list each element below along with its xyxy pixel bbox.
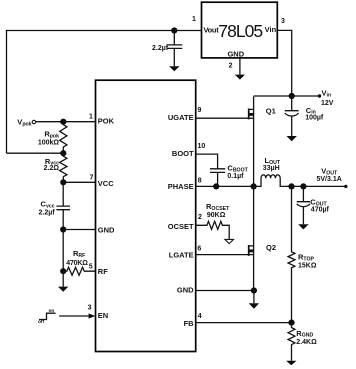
wire: LGATE pin 6 to Q2 gate: [196, 245, 249, 254]
svg-text:470KΩ: 470KΩ: [66, 260, 88, 267]
ground under RGND: [286, 361, 296, 365]
node Vout terminal: [317, 167, 348, 189]
svg-text:Vin: Vin: [322, 88, 332, 98]
svg-text:1: 1: [192, 16, 196, 23]
svg-text:LGATE: LGATE: [169, 250, 194, 259]
wire: GND pin right: [196, 290, 254, 292]
junction: POK / Rpok: [60, 119, 66, 125]
junction: Q2 source / GND: [251, 287, 257, 293]
svg-text:OCSET: OCSET: [168, 222, 194, 231]
svg-text:10: 10: [198, 143, 206, 150]
capacitor Cin 100uf: [285, 96, 324, 136]
svg-text:RGND: RGND: [296, 329, 313, 339]
svg-text:470µf: 470µf: [311, 206, 330, 213]
svg-text:12V: 12V: [321, 100, 334, 107]
ground under Cin: [287, 136, 297, 141]
node Vpok terminal: [17, 118, 35, 128]
svg-text:VOUT: VOUT: [321, 167, 338, 177]
svg-text:3: 3: [281, 18, 285, 25]
svg-text:CBOOT: CBOOT: [227, 163, 248, 173]
svg-text:78L05: 78L05: [218, 21, 262, 41]
svg-text:Vout: Vout: [204, 25, 220, 34]
svg-text:2.2µf: 2.2µf: [152, 45, 169, 52]
svg-text:PHASE: PHASE: [168, 182, 194, 191]
capacitor Cout 470uf: [297, 186, 330, 224]
node Vin terminal: [318, 88, 334, 106]
wire: output node Vout: [292, 185, 346, 187]
resistor RGND 2.4KOhm: [288, 323, 317, 361]
wire: GND pin left: [63, 229, 95, 231]
svg-text:2.2Ω: 2.2Ω: [44, 165, 60, 172]
resistor ROCSET 90KOhm labels: [206, 202, 230, 219]
svg-text:2.4KΩ: 2.4KΩ: [296, 339, 317, 346]
svg-text:5V/3.1A: 5V/3.1A: [317, 176, 342, 183]
wire: input node Vin: [254, 95, 320, 97]
svg-text:on: on: [49, 309, 55, 314]
junction: Vin / Cin: [289, 93, 295, 99]
wire: OCSET pin 2: [196, 214, 230, 239]
capacitor 2.2uf at 78L05 output: [152, 31, 182, 67]
svg-text:BOOT: BOOT: [172, 149, 194, 158]
signal EN on/off step: [38, 309, 56, 325]
junction: Rvcc / VCC pin: [60, 179, 66, 185]
svg-text:100kΩ: 100kΩ: [38, 140, 60, 147]
svg-text:RTOP: RTOP: [298, 252, 315, 262]
resistor RTOP 15KOhm: [288, 186, 317, 322]
svg-text:15KΩ: 15KΩ: [298, 263, 317, 270]
svg-text:6: 6: [197, 245, 201, 252]
resistor RRF 470KOhm: [63, 249, 95, 275]
wire: PHASE pin 8: [196, 178, 254, 187]
junction: RTOP tap: [288, 183, 294, 189]
svg-text:GND: GND: [98, 225, 115, 234]
svg-text:Rpok: Rpok: [44, 130, 59, 140]
controller U1 box: [96, 80, 196, 351]
transistor Q1: [249, 96, 276, 186]
junction: CBOOT / PHASE: [213, 183, 219, 189]
ground under RRF: [58, 271, 68, 292]
wire: vertical Cvcc to RRF: [62, 230, 64, 272]
svg-text:0.1µf: 0.1µf: [227, 173, 244, 180]
ground under GND pin / Q2 source: [249, 291, 259, 309]
svg-text:GND: GND: [227, 50, 244, 59]
regulator U2 78L05: [202, 2, 278, 58]
wire: BOOT pin 10: [196, 143, 218, 169]
svg-text:POK: POK: [98, 117, 115, 126]
svg-text:4: 4: [198, 313, 202, 320]
wire: Vpok to POK pin 1: [36, 114, 96, 122]
svg-text:RF: RF: [98, 267, 108, 276]
svg-text:9: 9: [198, 107, 202, 114]
capacitor Cvcc 2.2uf: [38, 182, 70, 229]
junction: RRF / ground: [60, 268, 66, 274]
ground under Cout: [298, 224, 308, 229]
svg-text:1: 1: [89, 114, 93, 121]
svg-text:2.2µf: 2.2µf: [38, 209, 55, 216]
wire: FB pin 4: [196, 313, 292, 323]
junction: Cout tap: [300, 183, 306, 189]
svg-text:FB: FB: [184, 319, 195, 328]
svg-text:Q1: Q1: [266, 106, 276, 115]
svg-text:GND: GND: [177, 285, 194, 294]
svg-text:90KΩ: 90KΩ: [207, 212, 226, 219]
wire: EN arrow into pin 3: [59, 304, 95, 318]
svg-text:7: 7: [90, 174, 94, 181]
svg-text:Q2: Q2: [266, 243, 276, 252]
svg-text:UGATE: UGATE: [168, 113, 194, 122]
svg-text:2: 2: [198, 214, 202, 221]
svg-text:3: 3: [88, 304, 92, 311]
capacitor CBOOT 0.1uf: [210, 163, 249, 186]
resistor Rvcc 2.2Ohm: [44, 153, 67, 182]
wire: bottom of loop to Rpok/Rvcc junction: [7, 152, 64, 154]
resistor Rpok 100kOhm: [38, 122, 67, 154]
svg-text:off: off: [38, 319, 45, 325]
ground under 78L05 pin 2: [235, 75, 245, 80]
wire: 78L05 Vin pin3 to input node: [277, 18, 291, 96]
wire: VCC pin 7: [63, 174, 95, 182]
open arrow under ROCSET: [225, 239, 234, 243]
transistor Q2: [249, 186, 276, 290]
inductor Lout 33uH: [254, 156, 292, 186]
junction: top wire / 2.2uf cap: [171, 27, 177, 33]
svg-text:Cvcc: Cvcc: [41, 200, 55, 210]
junction: Rpok / Rvcc / loop wire: [60, 150, 66, 156]
wire: UGATE pin 9 to Q1 gate: [196, 107, 249, 118]
svg-text:8: 8: [198, 178, 202, 185]
svg-text:EN: EN: [98, 311, 108, 320]
svg-text:VCC: VCC: [98, 179, 114, 188]
svg-text:Vin: Vin: [265, 25, 277, 34]
junction: FB / RTOP / RGND: [288, 320, 294, 326]
wire: left vertical of POK feedback loop: [6, 30, 8, 153]
pin 2 ground of 78L05: [229, 58, 240, 75]
svg-text:100µf: 100µf: [305, 115, 324, 122]
svg-text:5: 5: [89, 264, 93, 271]
svg-text:Vpok: Vpok: [17, 118, 31, 128]
wire: 78L05 Vout pin1 to top-left corner: [7, 16, 202, 31]
svg-text:2: 2: [229, 63, 233, 70]
junction: Cvcc / GND pin: [60, 226, 66, 232]
svg-text:33µH: 33µH: [263, 165, 280, 172]
junction: PHASE / Q1 source / Q2 drain: [251, 183, 257, 189]
svg-text:RRF: RRF: [73, 249, 85, 259]
svg-text:ROCSET: ROCSET: [206, 202, 230, 212]
ground under 2.2uf capacitor: [169, 66, 179, 71]
